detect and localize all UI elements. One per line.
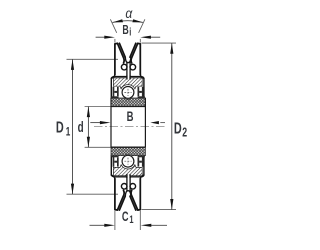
seal seat shoulder right bottom <box>138 155 145 157</box>
svg-text:1: 1 <box>66 126 71 139</box>
B1 dimension line left <box>96 36 105 38</box>
svg-text:B: B <box>127 108 134 124</box>
seal seat shoulder left bottom <box>111 155 118 157</box>
track roller bearing cross-section drawing <box>0 0 250 250</box>
bore top line <box>111 106 146 108</box>
ball bottom centerline cross <box>124 158 131 165</box>
B dimension line left tail <box>90 122 101 124</box>
lube hole through outer ring top <box>128 76 130 80</box>
D2 dimension line <box>171 43 173 210</box>
B1 arrow right <box>140 36 151 39</box>
top neck <box>127 63 130 77</box>
C1 arrow right <box>141 224 152 227</box>
bore centerline dash-dot <box>94 126 165 128</box>
ball top <box>122 87 134 99</box>
D1 dimension line <box>72 59 74 194</box>
bottom valley cup <box>125 191 131 197</box>
alpha angle arc <box>113 21 143 23</box>
B1 dimension line right <box>150 36 160 38</box>
alpha angle flank extension right <box>139 19 145 33</box>
B1 extension line right <box>139 39 141 43</box>
top rim left inner flank <box>119 43 125 57</box>
C1 arrow left <box>104 224 115 227</box>
top lube lobes <box>121 64 127 70</box>
d extension line top <box>85 106 111 108</box>
svg-text:2: 2 <box>182 126 187 140</box>
alpha arrow left <box>113 19 124 22</box>
svg-text:D: D <box>174 120 182 138</box>
ball bottom <box>122 155 134 167</box>
alpha arrow right <box>132 19 143 22</box>
B arrow left (points right) <box>100 121 111 124</box>
seal seat shoulder left top <box>111 96 118 98</box>
top rim right: face + top + outer flank <box>131 43 140 75</box>
svg-text:i: i <box>129 25 131 38</box>
bottom neck <box>127 177 130 191</box>
svg-text:D: D <box>56 119 64 137</box>
outer ring hatched section top <box>113 78 142 89</box>
d dimension line <box>87 107 89 148</box>
top valley cup <box>125 57 131 63</box>
D2 arrow up <box>170 43 173 54</box>
top rim right inner flank <box>130 43 136 57</box>
D2 arrow down <box>170 199 173 210</box>
bore bottom line <box>111 146 146 148</box>
inner ring hatched section bottom <box>111 147 145 155</box>
d arrow down <box>87 137 90 148</box>
B1 arrow left <box>104 36 115 39</box>
seal seat shoulder right top <box>138 96 145 98</box>
seal right bottom <box>142 157 144 167</box>
D1 arrow down <box>71 184 74 195</box>
d arrow up <box>87 107 90 118</box>
D1 extension line top (valley root) <box>67 58 119 60</box>
svg-text:C: C <box>122 211 129 225</box>
svg-text:d: d <box>78 119 84 135</box>
inner ring right face <box>144 98 146 148</box>
outer ring top outline <box>111 74 115 97</box>
ball top centerline cross <box>124 89 131 96</box>
d extension line bottom <box>85 146 111 148</box>
svg-text:1: 1 <box>129 212 133 225</box>
B dimension line right tail <box>160 122 165 124</box>
C1 dimension line right tail <box>151 224 167 226</box>
D1 extension line bottom <box>67 193 119 195</box>
seal right top <box>142 87 144 97</box>
D2 extension line bottom <box>142 209 177 211</box>
C1 extension line right <box>139 211 141 230</box>
bottom rim left <box>115 179 124 211</box>
top rim left: face + top + outer flank <box>115 43 124 75</box>
outer ring bottom outline <box>111 156 115 179</box>
D2 extension line top <box>142 42 177 44</box>
inner ring left face <box>110 98 112 148</box>
svg-text:B: B <box>122 24 128 38</box>
bottom lube lobes <box>121 184 127 190</box>
bottom rim right <box>131 179 140 211</box>
C1 dimension line left tail <box>90 224 106 226</box>
B1 extension line left <box>114 39 116 43</box>
B arrow right (points left) <box>150 121 159 124</box>
seal left top <box>113 87 115 97</box>
seal left bottom <box>113 157 115 167</box>
C1 extension line left <box>114 211 116 230</box>
alpha angle flank extension left <box>110 19 116 33</box>
outer ring hatched section bottom <box>113 165 142 176</box>
svg-text:α: α <box>125 5 133 21</box>
D1 arrow up <box>71 59 74 70</box>
lube hole through outer ring bottom <box>128 174 130 178</box>
inner ring hatched section top <box>111 98 145 106</box>
